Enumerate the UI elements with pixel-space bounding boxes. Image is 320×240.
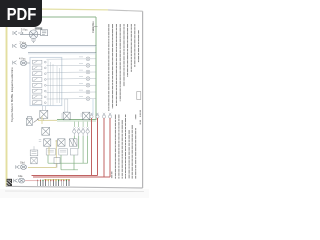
svg-text:5 Vcc: 5 Vcc — [21, 28, 28, 32]
svg-text:Obd: Obd — [20, 162, 25, 165]
svg-text:4 Vcc: 4 Vcc — [19, 56, 26, 60]
svg-text:Toyota hilux ln 8C/8E. Esquema: Toyota hilux ln 8C/8E. Esquema eléctrico — [10, 67, 14, 122]
svg-text:Cable fino: Cable fino — [91, 21, 95, 33]
svg-text:Cda: Cda — [18, 175, 23, 178]
svg-text:2 Vcc: 2 Vcc — [20, 41, 27, 45]
